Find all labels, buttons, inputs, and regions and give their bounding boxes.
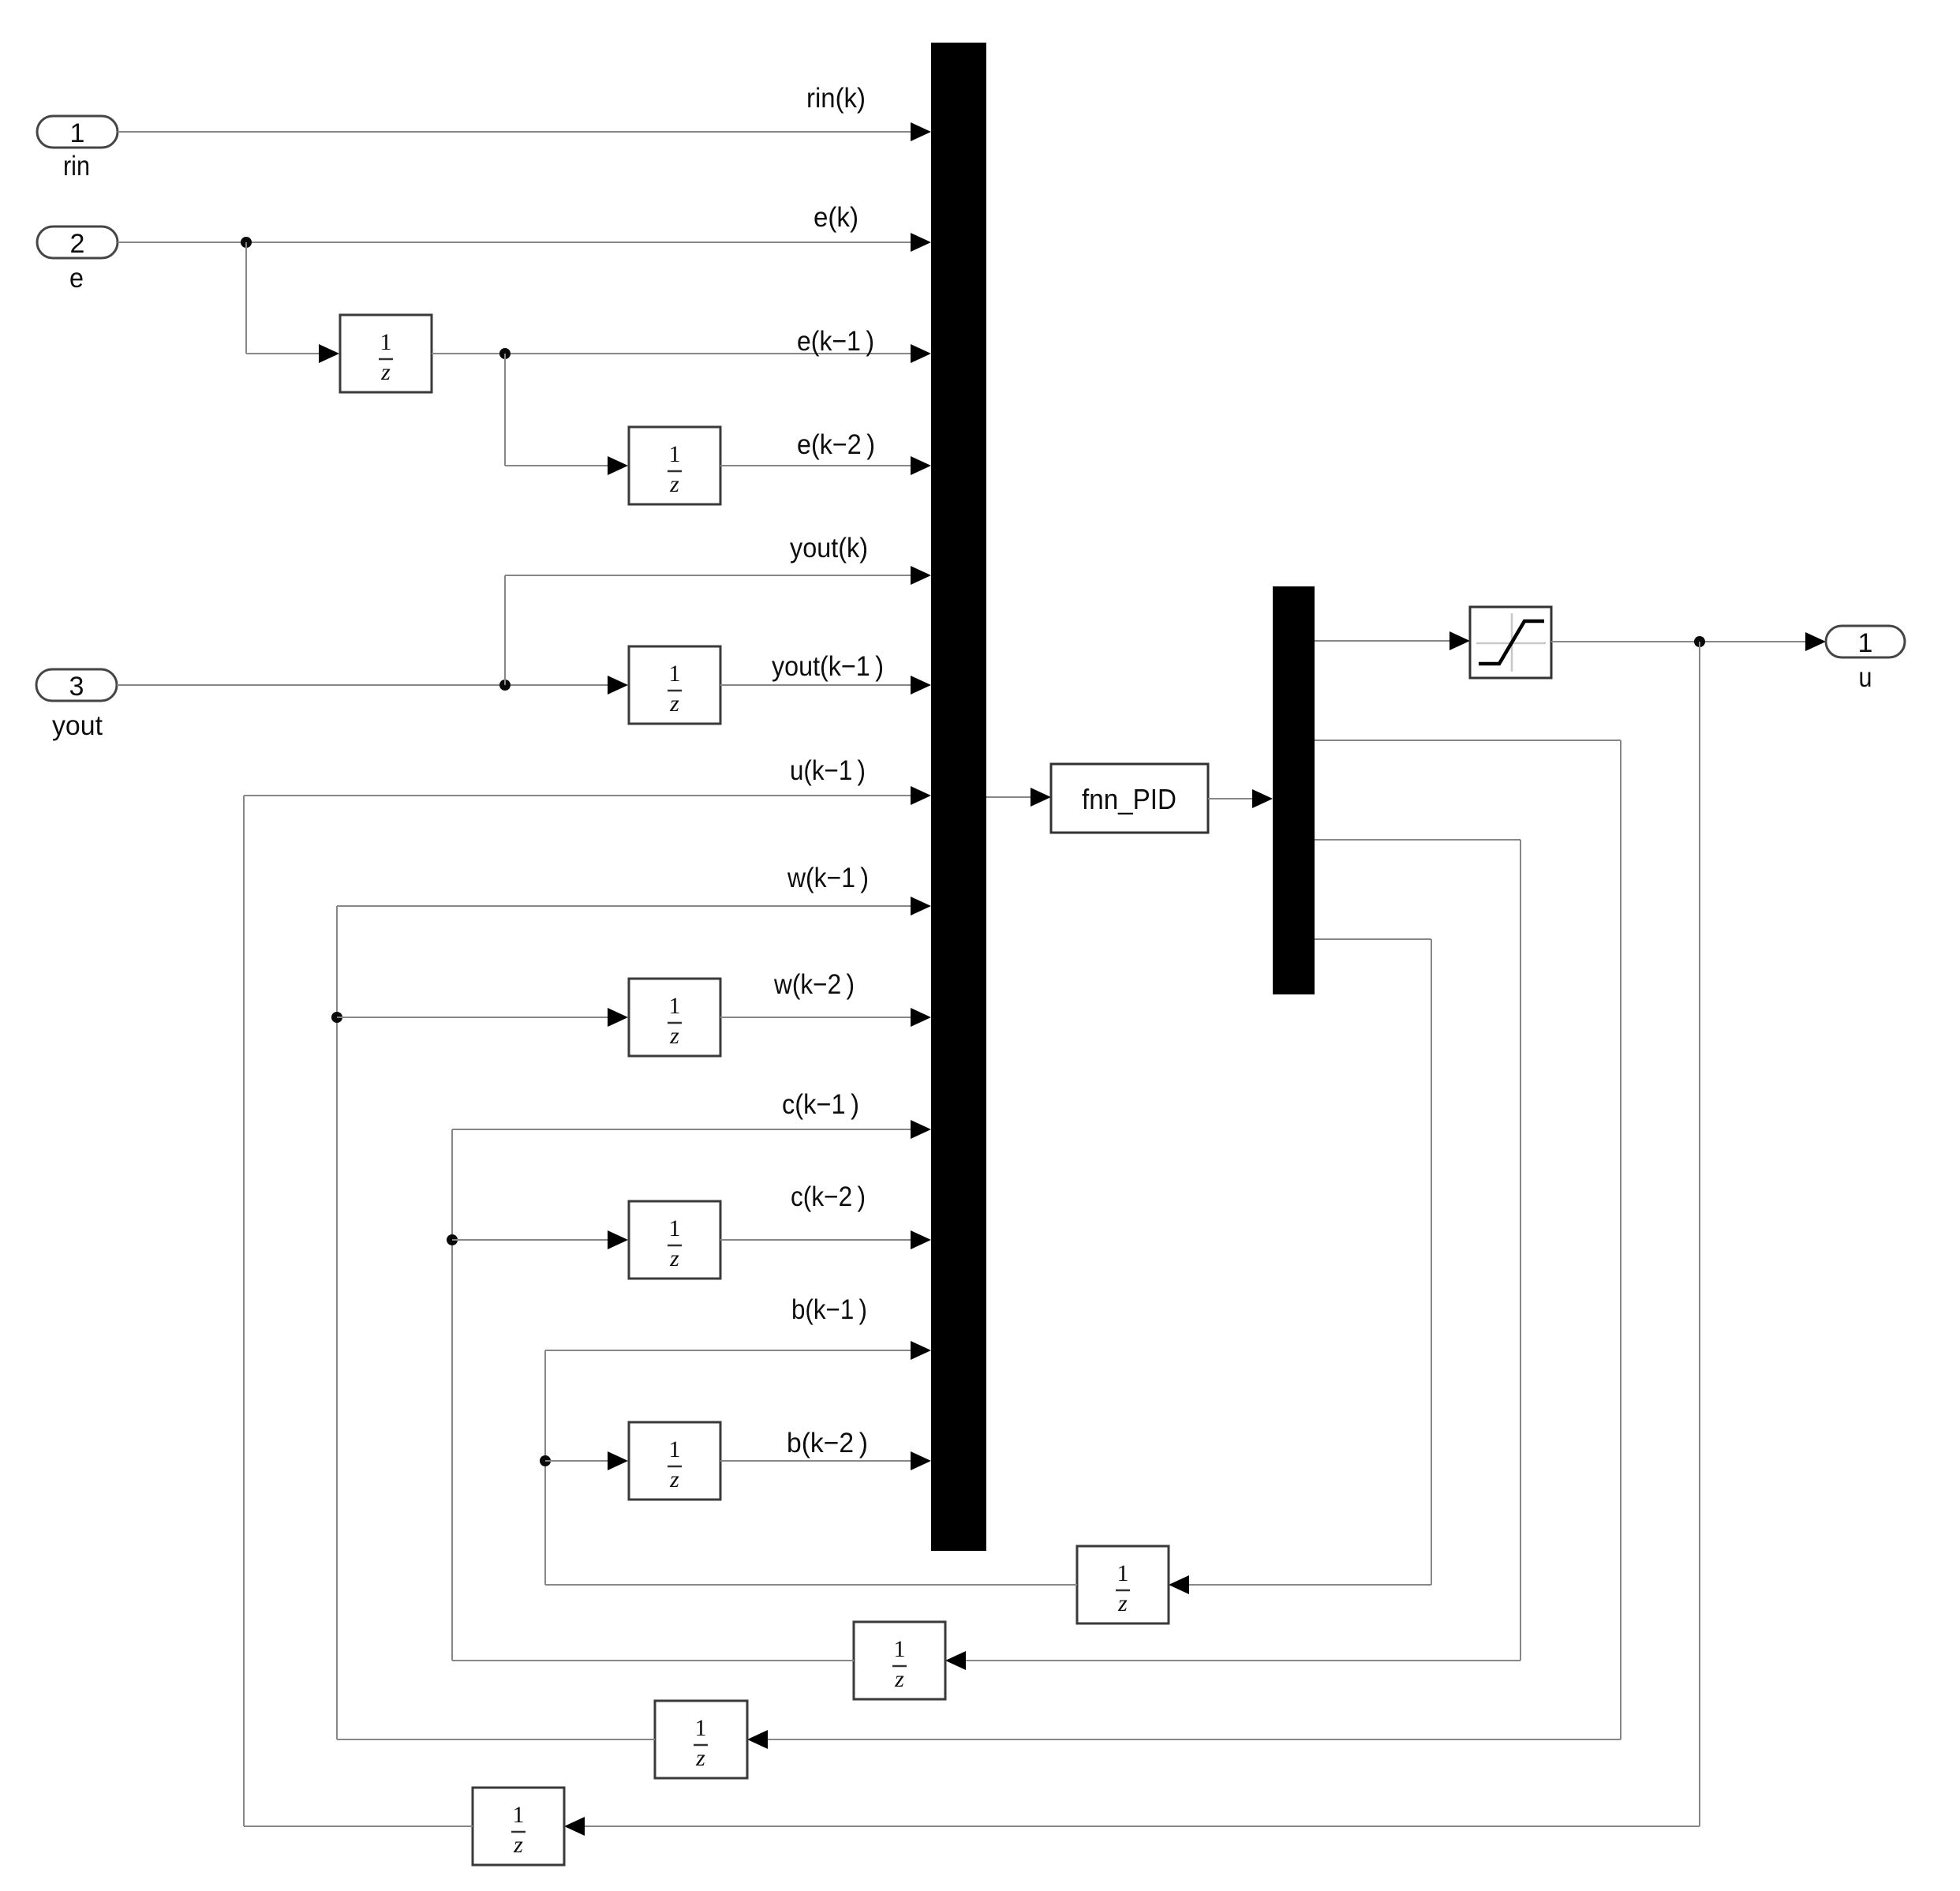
wire c(k-1) return bbox=[452, 1120, 931, 1661]
port label rin bbox=[63, 151, 90, 182]
unit delay block 1/z (u loop) bbox=[473, 1788, 564, 1865]
svg-text:yout: yout bbox=[52, 710, 103, 741]
svg-text:1: 1 bbox=[669, 441, 681, 467]
svg-text:1: 1 bbox=[669, 1436, 681, 1462]
svg-text:3: 3 bbox=[69, 672, 84, 702]
svg-text:u(k−1 ): u(k−1 ) bbox=[790, 755, 866, 786]
wire w(k-2) bbox=[720, 1008, 931, 1027]
svg-text:z: z bbox=[1117, 1590, 1128, 1616]
junction dot on c riser bbox=[447, 1234, 458, 1245]
unit delay block 1/z (c(k-2)) bbox=[629, 1201, 720, 1279]
svg-text:w(k−2 ): w(k−2 ) bbox=[773, 969, 855, 1000]
unit delay block 1/z (e(k-1)) bbox=[340, 315, 432, 392]
junction dot on b riser bbox=[540, 1455, 551, 1466]
demux block (black bar) bbox=[1273, 586, 1315, 994]
svg-text:z: z bbox=[380, 359, 391, 385]
wire yout(k-1) bbox=[720, 676, 931, 695]
wire w feedback bottom rail bbox=[747, 1730, 1621, 1749]
junction dot on w riser bbox=[331, 1012, 342, 1023]
block fnn_PID bbox=[1051, 764, 1208, 833]
svg-text:z: z bbox=[669, 1466, 679, 1492]
svg-text:z: z bbox=[669, 1245, 679, 1271]
svg-text:z: z bbox=[669, 471, 679, 497]
svg-text:z: z bbox=[695, 1745, 705, 1771]
unit delay block 1/z (w(k-2)) bbox=[629, 979, 720, 1056]
svg-text:1: 1 bbox=[894, 1636, 906, 1662]
wire w feedback riser down bbox=[1620, 740, 1621, 1739]
signal label yout(k) bbox=[790, 533, 868, 564]
junction dot on e line bbox=[241, 237, 252, 248]
wire rin(k) bbox=[118, 122, 931, 141]
svg-text:fnn_PID: fnn_PID bbox=[1082, 783, 1176, 815]
wire b branch to delay bbox=[545, 1451, 628, 1470]
input port 3 "yout" bbox=[36, 669, 117, 702]
wire b(k-1) return bbox=[545, 1341, 1077, 1585]
wire u(k-1) return bbox=[244, 786, 931, 1826]
wire demux out4 bbox=[1315, 938, 1431, 940]
svg-text:1: 1 bbox=[669, 993, 681, 1019]
mux block (black bar) bbox=[931, 43, 986, 1551]
junction dot on u line bbox=[1694, 636, 1705, 647]
svg-text:z: z bbox=[669, 1023, 679, 1049]
svg-text:1: 1 bbox=[70, 118, 85, 148]
wire w branch to delay bbox=[337, 1008, 628, 1027]
junction dot on yout line bbox=[499, 680, 511, 691]
svg-text:z: z bbox=[894, 1666, 904, 1692]
svg-text:b(k−2 ): b(k−2 ) bbox=[787, 1428, 868, 1459]
output port 1 "u" bbox=[1826, 626, 1905, 658]
signal label yout(k-1) bbox=[772, 651, 884, 682]
wire demux to saturation bbox=[1315, 631, 1470, 650]
wire saturation to output port bbox=[1551, 632, 1826, 651]
svg-text:1: 1 bbox=[669, 661, 681, 687]
wire w(k-1) return bbox=[337, 897, 931, 1739]
svg-text:z: z bbox=[669, 691, 679, 717]
input port 1 "rin" bbox=[37, 116, 118, 148]
svg-text:1: 1 bbox=[513, 1802, 525, 1828]
signal label c(k-1) bbox=[782, 1089, 859, 1120]
junction dot on e(k-1) line bbox=[499, 348, 511, 359]
wire yout(k) branch up bbox=[505, 566, 931, 685]
svg-text:w(k−1 ): w(k−1 ) bbox=[787, 863, 869, 893]
signal label rin(k) bbox=[806, 83, 866, 114]
wire b feedback bottom rail bbox=[1169, 1575, 1431, 1594]
input port 2 "e" bbox=[37, 227, 118, 259]
wire e(k-1) bbox=[432, 344, 931, 363]
wire b feedback riser down bbox=[1431, 939, 1432, 1585]
wire e(k-1) branch down to Unit Delay bbox=[505, 354, 628, 475]
svg-text:u: u bbox=[1859, 662, 1872, 693]
svg-text:rin(k): rin(k) bbox=[806, 83, 866, 114]
svg-text:1: 1 bbox=[1117, 1560, 1129, 1586]
wire mux to fnn_PID bbox=[986, 788, 1051, 807]
svg-text:rin: rin bbox=[63, 151, 90, 182]
svg-text:2: 2 bbox=[70, 229, 85, 259]
signal label c(k-2) bbox=[791, 1181, 866, 1212]
svg-text:e(k−2 ): e(k−2 ) bbox=[797, 429, 875, 460]
signal label w(k-1) bbox=[787, 863, 869, 893]
signal label w(k-2) bbox=[773, 969, 855, 1000]
wire fnn_PID to demux bbox=[1208, 789, 1273, 808]
wire yout to delay bbox=[117, 676, 628, 695]
signal label e(k) bbox=[814, 202, 858, 233]
unit delay block 1/z (b(k-2)) bbox=[629, 1422, 720, 1500]
wire u feedback riser down bbox=[1699, 642, 1700, 1826]
wire e branch down to Unit Delay bbox=[246, 242, 339, 363]
svg-text:z: z bbox=[513, 1832, 523, 1858]
svg-text:1: 1 bbox=[695, 1715, 707, 1741]
wire e(k) bbox=[118, 233, 931, 252]
unit delay block 1/z (c loop) bbox=[854, 1622, 945, 1699]
svg-text:c(k−1 ): c(k−1 ) bbox=[782, 1089, 859, 1120]
svg-text:1: 1 bbox=[380, 329, 392, 355]
svg-text:yout(k−1 ): yout(k−1 ) bbox=[772, 651, 884, 682]
signal label e(k-1) bbox=[797, 326, 874, 357]
unit delay block 1/z (w loop) bbox=[655, 1701, 747, 1778]
wire demux out3 bbox=[1315, 839, 1520, 841]
wire c(k-2) bbox=[720, 1230, 931, 1249]
wire u feedback bottom rail bbox=[564, 1817, 1700, 1836]
signal label u(k-1) bbox=[790, 755, 866, 786]
svg-text:1: 1 bbox=[669, 1215, 681, 1241]
svg-text:e(k): e(k) bbox=[814, 202, 858, 233]
svg-text:e: e bbox=[69, 263, 84, 294]
signal label b(k-2) bbox=[787, 1428, 868, 1459]
unit delay block 1/z (b loop) bbox=[1077, 1546, 1169, 1623]
svg-text:e(k−1 ): e(k−1 ) bbox=[797, 326, 874, 357]
wire c feedback bottom rail bbox=[945, 1651, 1520, 1670]
port label u bbox=[1859, 662, 1872, 693]
saturation block bbox=[1470, 607, 1551, 678]
signal label b(k-1) bbox=[791, 1294, 867, 1325]
unit delay block 1/z (yout(k-1)) bbox=[629, 646, 720, 724]
svg-text:yout(k): yout(k) bbox=[790, 533, 868, 564]
wire demux out2 bbox=[1315, 740, 1621, 741]
svg-text:1: 1 bbox=[1858, 628, 1873, 658]
port label e bbox=[69, 263, 84, 294]
wire c feedback riser down bbox=[1520, 840, 1521, 1661]
wire b(k-2) bbox=[720, 1451, 931, 1470]
wire e(k-2) bbox=[720, 456, 931, 475]
svg-text:b(k−1 ): b(k−1 ) bbox=[791, 1294, 867, 1325]
port label yout bbox=[52, 710, 103, 741]
wire c branch to delay bbox=[452, 1230, 628, 1249]
unit delay block 1/z (e(k-2)) bbox=[629, 427, 720, 504]
signal label e(k-2) bbox=[797, 429, 875, 460]
svg-text:c(k−2 ): c(k−2 ) bbox=[791, 1181, 866, 1212]
